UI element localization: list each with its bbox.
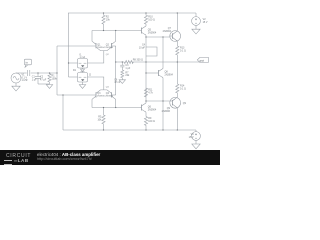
- wire V1 to C1: [16, 72, 27, 74]
- ground V1: [12, 83, 20, 91]
- svg-text:2N3904: 2N3904: [163, 30, 172, 33]
- wire bottom pair left collector: [91, 99, 93, 107]
- wire lower collector node y107.5: [92, 107, 140, 109]
- svg-text:Q4: Q4: [106, 86, 110, 88]
- transistor Q4 right of lower pair: [104, 90, 116, 99]
- wire top supply rail: [68, 12, 196, 14]
- ground feedback shunt: [119, 80, 125, 84]
- resistor R1: [48, 73, 51, 84]
- wire Q8 collector up x163: [162, 37, 164, 69]
- svg-text:0.1 Ω: 0.1 Ω: [180, 88, 186, 91]
- wire Q7 emitter: [176, 41, 178, 46]
- svg-text:100 Ω: 100 Ω: [148, 19, 155, 22]
- resistor R14: [176, 84, 179, 97]
- svg-text:10k: 10k: [97, 119, 102, 122]
- svg-text:4.7k: 4.7k: [148, 92, 153, 95]
- svg-text:15 V: 15 V: [203, 21, 208, 24]
- svg-text:Q1: Q1: [97, 43, 101, 46]
- capacitor C3: [120, 62, 124, 70]
- resistor R7: [121, 70, 124, 80]
- svg-text:Q2: Q2: [106, 54, 110, 56]
- svg-text:2N3904 2N3904: 2N3904 2N3904: [97, 47, 114, 49]
- svg-text:15 V: 15 V: [189, 136, 194, 139]
- current source box I2: [78, 73, 88, 83]
- ground below I2: [79, 82, 85, 88]
- wire top pair right collector: [115, 31, 117, 42]
- transistor Q3 left of lower pair: [92, 90, 104, 99]
- wire Q9 emitter to rail: [176, 108, 178, 130]
- transistor Q5: [140, 26, 146, 35]
- wire bias chain x146 mid: [145, 47, 147, 101]
- wire top pair tail to box I1: [88, 51, 104, 63]
- svg-text:10k: 10k: [106, 19, 111, 22]
- capacitor C1: [28, 70, 30, 76]
- voltage source V2 positive supply: [192, 13, 201, 29]
- resistor R9: [144, 117, 147, 131]
- wire feedback to output column: [132, 61, 200, 63]
- wire loop around bias: [146, 47, 157, 56]
- resistor R8: [124, 61, 133, 64]
- wire box2 left pin: [69, 76, 78, 78]
- ground V2: [192, 29, 200, 34]
- junction dots: [68, 62, 69, 63]
- resistor R2: [102, 13, 105, 31]
- svg-text:R8 330 Ω: R8 330 Ω: [133, 58, 143, 61]
- svg-text:out: out: [200, 59, 204, 63]
- transistor Q9 output PNP: [170, 97, 181, 108]
- wire Q6 emitter: [145, 112, 147, 116]
- wire lower drive y101: [146, 100, 170, 102]
- wire feedback y62: [116, 61, 125, 63]
- svg-text:2N3906: 2N3906: [162, 110, 171, 113]
- wire VAS node y37: [146, 36, 170, 38]
- ground V3: [192, 144, 200, 149]
- voltage source V3 negative supply: [192, 130, 201, 144]
- node flag out: [197, 57, 208, 62]
- svg-text:2N3904: 2N3904: [165, 73, 174, 76]
- svg-text:47 µF: 47 µF: [40, 79, 47, 82]
- svg-text:1 µF: 1 µF: [32, 78, 37, 81]
- wire input node vertical x57: [56, 46, 58, 95]
- wire C1 to input node: [31, 72, 57, 74]
- svg-text:100 Ω: 100 Ω: [148, 120, 155, 123]
- wire Q6 collector: [145, 101, 147, 103]
- wire bottom pair right collector: [115, 99, 117, 107]
- diode D1: [81, 68, 85, 73]
- wire C2 ground link: [38, 83, 50, 85]
- capacitor C2: [35, 73, 41, 84]
- voltage source V1 (AC input): [11, 73, 21, 83]
- svg-text:I2: I2: [89, 74, 92, 77]
- ground input network: [46, 85, 52, 89]
- resistor R10: [144, 13, 147, 26]
- resistor R11: [144, 88, 147, 97]
- wire collector load node y30.5: [92, 30, 140, 32]
- wire top pair left base y46: [57, 45, 96, 47]
- svg-text:10 pF: 10 pF: [139, 47, 146, 50]
- wire Q4 base stub: [112, 94, 116, 96]
- wire output column mid: [176, 62, 178, 84]
- transistor Q8 bias: [146, 69, 163, 78]
- wire left feed vertical x68.5 from top rail to current-source boxes: [68, 13, 70, 77]
- svg-text:47 nF: 47 nF: [114, 81, 121, 84]
- wire top pair left collector: [91, 31, 93, 42]
- svg-text:in: in: [26, 61, 29, 65]
- wire bias chain x146 upper: [145, 37, 147, 47]
- wire Q7 collector to rail: [176, 13, 178, 31]
- svg-text:100k: 100k: [52, 77, 58, 80]
- resistor R5: [102, 108, 105, 131]
- svg-text:22k: 22k: [125, 74, 130, 77]
- svg-text:0.1 Ω: 0.1 Ω: [180, 50, 186, 53]
- wire bottom pair tail to box I2: [88, 77, 104, 90]
- transistor Q6: [140, 103, 146, 112]
- svg-text:1 mA: 1 mA: [80, 56, 86, 59]
- svg-text:1 kHz: 1 kHz: [22, 79, 29, 82]
- wire bottom supply rail: [63, 129, 196, 131]
- wire Q8 emitter down x163: [162, 78, 164, 130]
- transistor Q7 output NPN: [170, 31, 181, 42]
- svg-text:2N3906 2N3906: 2N3906 2N3906: [97, 95, 114, 97]
- svg-text:2N3904: 2N3904: [148, 108, 157, 111]
- svg-text:D1: D1: [73, 69, 77, 72]
- resistor R13: [176, 46, 179, 62]
- wire Q2 base stub: [112, 45, 116, 47]
- svg-text:2N3904: 2N3904: [148, 31, 157, 34]
- transistor Q2 right of input pair: [104, 41, 116, 50]
- wire box1 left pin: [69, 62, 78, 64]
- wire right base vertical x115.7: [115, 46, 117, 95]
- svg-text:Q2: Q2: [106, 43, 110, 46]
- wire x63 to bottom rail: [62, 95, 64, 130]
- wire Q5 emitter down: [145, 35, 147, 37]
- node flag in: [24, 59, 31, 67]
- svg-text:1 μF: 1 μF: [125, 67, 130, 70]
- wire bottom pair left base y95: [57, 94, 96, 96]
- svg-text:Q9: Q9: [183, 102, 187, 105]
- current source box I1: [78, 59, 88, 69]
- transistor Q1 left of input pair: [92, 41, 104, 50]
